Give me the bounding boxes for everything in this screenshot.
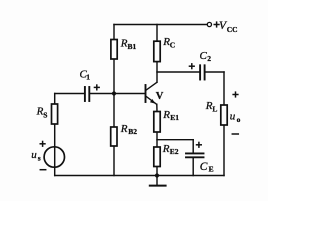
svg-text:R: R	[120, 123, 128, 135]
svg-text:o: o	[237, 115, 241, 124]
svg-text:u: u	[31, 149, 37, 161]
svg-text:C: C	[200, 161, 208, 173]
svg-text:2: 2	[207, 54, 211, 63]
svg-text:C: C	[170, 41, 175, 50]
svg-text:V: V	[156, 91, 164, 102]
svg-text:u: u	[230, 111, 236, 123]
svg-text:L: L	[212, 105, 217, 114]
svg-text:CC: CC	[227, 25, 238, 34]
svg-text:E: E	[209, 165, 214, 174]
svg-text:1: 1	[86, 73, 90, 82]
svg-text:R: R	[162, 143, 170, 155]
svg-text:E2: E2	[170, 147, 179, 156]
svg-text:E1: E1	[170, 113, 179, 122]
svg-text:C: C	[200, 50, 208, 62]
svg-text:B2: B2	[128, 127, 137, 136]
svg-text:s: s	[38, 154, 41, 163]
svg-text:S: S	[43, 111, 47, 120]
svg-text:R: R	[162, 109, 170, 121]
svg-text:B1: B1	[128, 42, 137, 51]
